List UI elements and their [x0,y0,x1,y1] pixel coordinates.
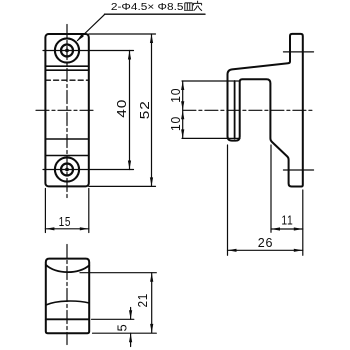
svg-text:5: 5 [114,323,129,331]
dimension 40 top arrow [128,51,131,60]
dimension 52 line [151,34,153,186]
dimension 26 line [228,249,303,251]
dimension 52 bottom extension line [89,185,156,187]
top countersunk hole inner circle [61,45,73,57]
leader underline for hole label [105,13,206,15]
dimension 26 right arrow [294,249,303,252]
front view arm top edge line 2 [45,69,88,71]
svg-text:26: 26 [258,235,274,250]
dimension 5 upper leg [130,308,132,320]
svg-text:52: 52 [137,100,152,119]
svg-text:21: 21 [135,293,150,308]
top countersunk hole outer circle [55,38,79,62]
dimension 21/5 bottom extension line [93,332,157,334]
top hole center line / 40-dim extension [43,50,134,52]
dimension 11 left arrow [271,227,280,230]
dimension 21 bottom arrow [150,324,153,333]
dimension 40 line [129,51,131,170]
front view plate outline [45,34,88,186]
svg-text:15: 15 [59,214,72,229]
dimension 11/26 right extension line [302,190,304,255]
dimension 21 top arrow [150,273,153,282]
dimension 15 left arrow [45,227,54,230]
kanji sara (dish) of sara-ana [184,3,193,10]
bottom hole center dot [65,168,69,172]
bottom view plate front face line [46,318,89,320]
dimension 5 lower arrow (up) [129,333,132,342]
side view finger middle edge [234,81,236,139]
leader line to top hole [78,15,105,41]
side view horizontal center line [183,109,313,111]
front view vertical center line [66,25,68,199]
dimension 11 left extension line [270,145,272,232]
svg-text:10: 10 [168,116,183,131]
side view bottom hole center line [284,169,314,171]
dimension 52 bottom arrow [150,177,153,186]
side view top hole center line [284,51,314,53]
dimension 11 right arrow [294,227,303,230]
front view taper edge line 1 [45,138,88,140]
bottom view hook inner arc [46,265,89,272]
dimension 15 right arrow [80,227,89,230]
dimension 5 extension line [92,318,134,320]
kanji ana (hole) of sara-ana [193,1,202,11]
dimension 10 bottom arrow [181,129,184,138]
bottom view vertical center line [66,245,68,345]
front view horizontal center line [36,109,96,111]
dimension 11 line [271,228,303,230]
svg-text:40: 40 [114,99,129,118]
bottom view outline [46,259,89,334]
svg-text:11: 11 [281,213,293,228]
dimension 5 lower leg [130,333,132,346]
dimension 10 middle arrow down [181,101,184,110]
dimension 40 bottom arrow [128,161,131,170]
dimension 10 top arrow [181,81,184,90]
bottom hole center line / 40-dim extension [43,169,134,171]
dimension 5 upper arrow (down) [129,310,132,319]
dimension 26 left arrow [228,249,237,252]
dimension 15 line [45,228,88,230]
dimension 15 right extension line [88,189,90,233]
dimension 26 left extension line [227,145,229,255]
svg-text:10: 10 [168,88,183,103]
svg-text:2-Φ4.5× Φ8.5: 2-Φ4.5× Φ8.5 [111,2,184,13]
dimension 10/10 line [182,81,184,138]
dimension 52 top arrow [150,34,153,43]
bottom countersunk hole inner circle [61,164,73,176]
dimension 10 middle arrow up [181,110,184,119]
side view 10-dim bottom extension line [182,137,240,139]
side view ledge / 10-dim top extension line [182,80,240,82]
bottom view middle arc [46,301,89,305]
dimension 21 line [151,273,153,333]
bottom countersunk hole outer circle [55,157,79,181]
top hole center dot [65,49,69,53]
front view hidden slot line (dashed) [45,79,88,81]
dimension 21 top extension line [80,272,156,274]
front view arm top edge line 1 [45,65,88,67]
dimension 52 top extension line [89,33,156,35]
leader arrowhead [76,34,84,42]
side view outline [228,34,303,187]
dimension 15 left extension line [44,189,46,233]
front view taper edge line 2 [45,155,88,157]
